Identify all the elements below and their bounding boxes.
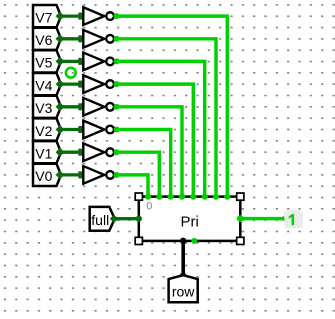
svg-text:0: 0 [146, 201, 152, 213]
tunnel full [90, 207, 115, 231]
tunnel V2 [33, 118, 61, 140]
NOT gate U1 [83, 143, 114, 161]
wire V2 gate output to Pri pin 2 [114, 127, 171, 197]
wire V1 gate output to Pri pin 1 [114, 149, 160, 197]
selection handle bottom-right [237, 237, 244, 244]
selection handle top-left [135, 193, 142, 200]
tunnel V4 [33, 73, 61, 95]
svg-text:V0: V0 [35, 168, 52, 184]
svg-text:Pri: Pri [181, 214, 199, 231]
NOT gate U2 [83, 121, 114, 139]
selection handle top-right [237, 193, 244, 200]
wire V7 tunnel to gate [56, 12, 86, 21]
svg-text:V7: V7 [35, 9, 52, 25]
wire V3 gate output to Pri pin 3 [114, 104, 182, 197]
selection handle bottom-left [135, 237, 142, 244]
svg-text:V3: V3 [35, 100, 52, 116]
wire V3 tunnel to gate [56, 102, 86, 111]
svg-text:full: full [91, 212, 109, 228]
tunnel V3 [33, 96, 61, 118]
NOT gate U3 [83, 98, 114, 116]
wire V6 tunnel to gate [56, 34, 86, 43]
svg-text:V2: V2 [35, 123, 52, 139]
value label 1 [284, 210, 303, 228]
NOT gate U7 [83, 7, 114, 25]
wire V5 gate output to Pri pin 5 [114, 58, 205, 196]
priority encoder Pri [139, 197, 241, 241]
svg-text:V1: V1 [35, 146, 52, 162]
wire V4 gate output to Pri pin 4 [114, 81, 194, 197]
wire V6 gate output to Pri pin 6 [114, 36, 216, 197]
NOT gate U0 [83, 166, 114, 184]
tunnel V5 [33, 50, 61, 72]
wire V0 tunnel to gate [56, 171, 86, 180]
wire V5 tunnel to gate [56, 57, 86, 66]
wire V7 gate output to Pri pin 7 [114, 13, 228, 197]
NOT gate U4 [83, 75, 114, 93]
wire V4 tunnel to gate [56, 80, 86, 89]
NOT gate U5 [83, 53, 114, 71]
tunnel V7 [33, 5, 61, 27]
node Pri input pins [145, 194, 231, 200]
svg-text:V5: V5 [35, 55, 52, 71]
svg-text:row: row [172, 283, 195, 299]
wire Pri row output to row tunnel [179, 238, 187, 280]
wire full tunnel to Pri enable pin [110, 215, 142, 223]
node Pri bottom unconnected pin [191, 238, 197, 244]
tunnel V0 [33, 164, 61, 186]
tunnel V1 [33, 141, 61, 163]
wire V2 tunnel to gate [56, 125, 86, 134]
tunnel V6 [33, 28, 61, 50]
NOT gate U6 [83, 30, 114, 48]
svg-text:V4: V4 [35, 77, 52, 93]
wire Pri output to value probe [237, 215, 288, 222]
wire V0 gate output to Pri pin 0 [114, 172, 148, 197]
node marker ring [66, 68, 76, 78]
svg-text:V6: V6 [35, 32, 52, 48]
tunnel row [169, 275, 198, 302]
wire V1 tunnel to gate [56, 148, 86, 157]
